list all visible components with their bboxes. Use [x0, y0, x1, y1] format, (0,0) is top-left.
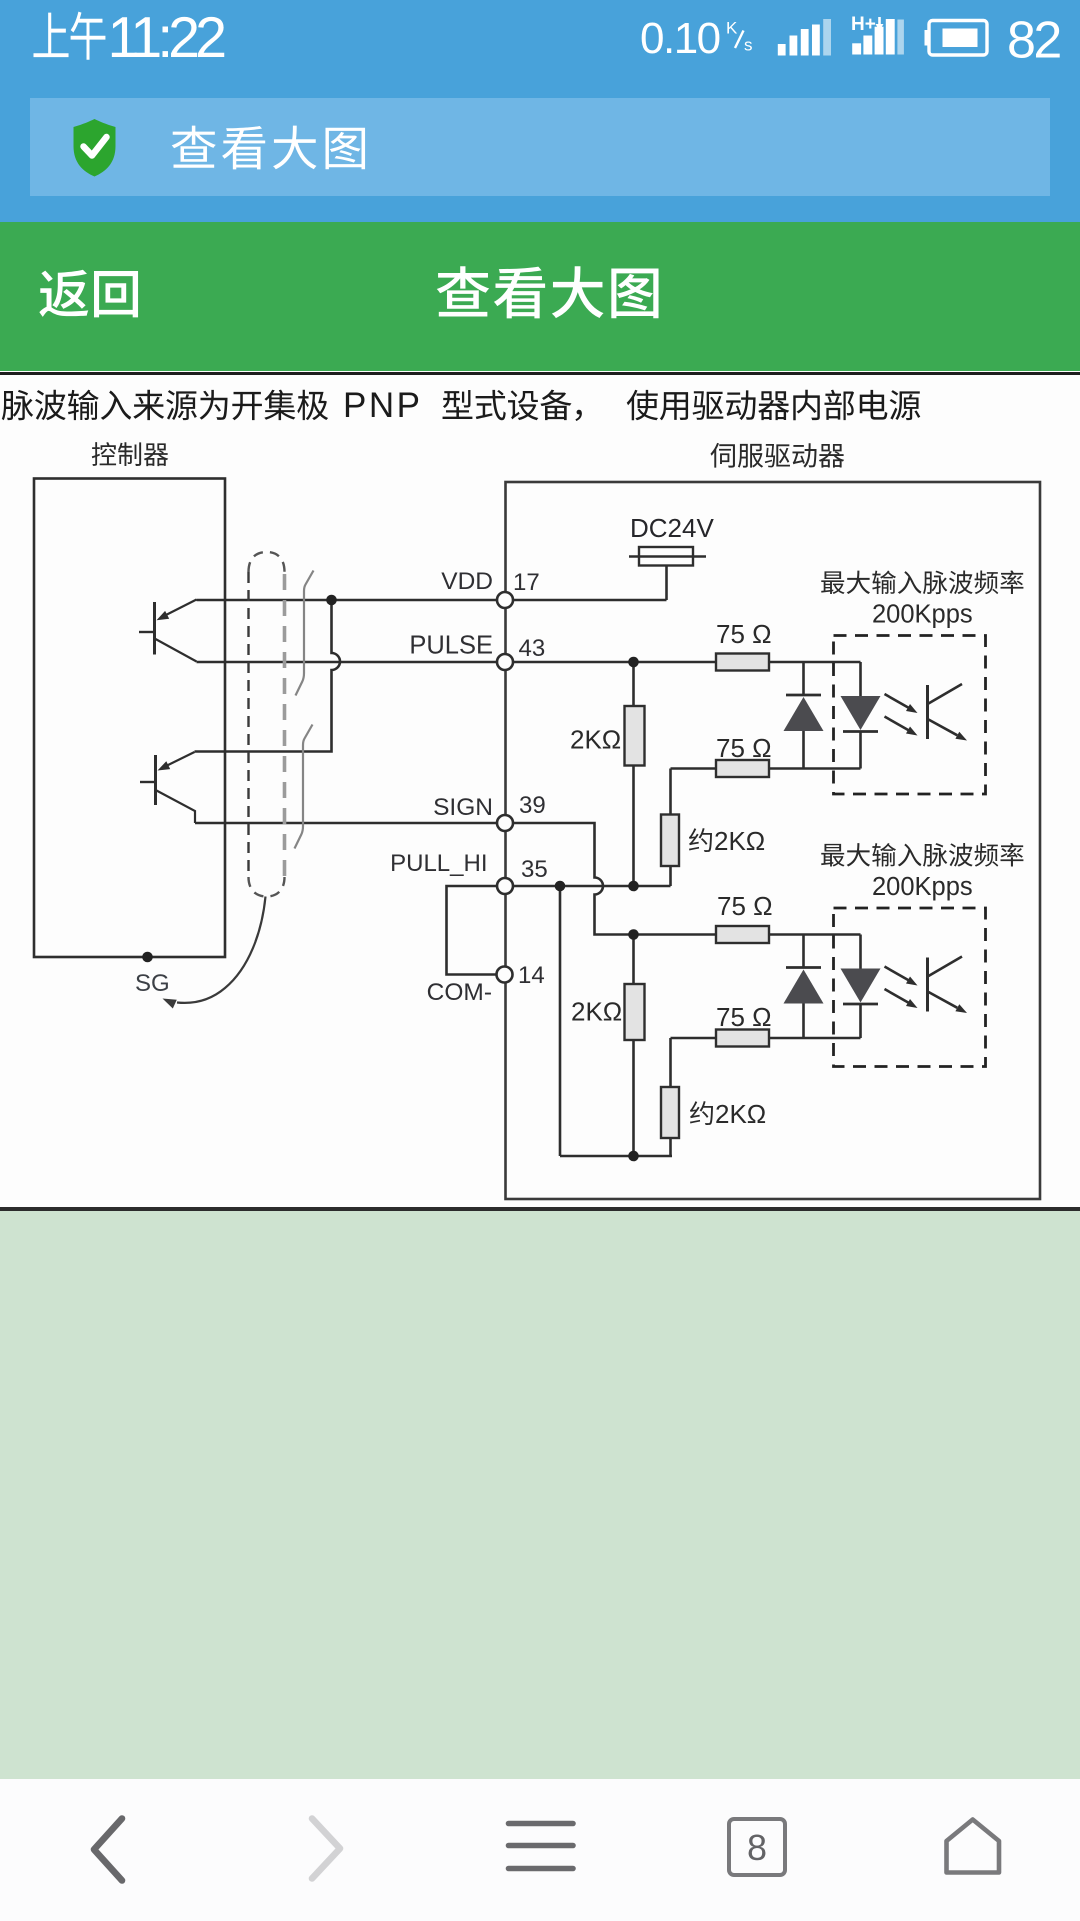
nav menu icon — [509, 1824, 574, 1869]
svg-text:2KΩ: 2KΩ — [571, 997, 622, 1027]
pin 35 PULL_HI — [497, 878, 513, 894]
resistor R6 75ohm (SIGN series upper) — [716, 926, 769, 943]
controller box — [34, 479, 225, 958]
nav back chevron — [94, 1819, 122, 1881]
wire R4 top lead from lower rail — [669, 769, 672, 815]
wire VDD net: pin17 to DC24V and to Q1 emitter — [197, 599, 667, 602]
resistor R5 2Kohm pulldown (lower) — [625, 984, 645, 1040]
svg-text:14: 14 — [518, 962, 545, 989]
shield capsule left dashed line — [247, 572, 249, 877]
svg-text:39: 39 — [519, 792, 546, 819]
label controller box 控制器 — [92, 442, 168, 466]
diode D1 (up, optocoupler U1 input) — [784, 695, 824, 731]
pin 17 VDD — [497, 592, 513, 608]
wire VDD branch down to Q2 collector with hop over PULSE — [195, 600, 341, 752]
nav home icon — [947, 1820, 1000, 1873]
svg-text:82: 82 — [1007, 12, 1060, 70]
svg-text:35: 35 — [521, 856, 548, 883]
wire R3 bottom lead down to PULL_HI net — [632, 766, 635, 887]
pin 39 SIGN — [497, 815, 513, 831]
svg-text:2KΩ: 2KΩ — [570, 725, 621, 755]
label servo driver box 伺服驱动器 — [710, 443, 844, 468]
junction node COM- bottom rail/R5 — [628, 1151, 639, 1162]
junction node PULL_HI/COM rail — [555, 881, 566, 892]
wire 2K pulldown R5 top lead — [632, 935, 635, 985]
svg-text:H+: H+ — [851, 14, 876, 35]
svg-text:PNP: PNP — [343, 386, 422, 425]
notification shield icon — [74, 119, 116, 177]
svg-text:75 Ω: 75 Ω — [716, 1002, 772, 1032]
light arrows U2 — [885, 967, 910, 1004]
shield capsule top arc — [249, 552, 285, 572]
label U2 max input pulse frequency — [821, 843, 1023, 867]
svg-text:PULSE: PULSE — [409, 632, 493, 660]
junction node SIGN lower rail/R5 — [628, 929, 639, 940]
value label R4 约2KΩ — [689, 828, 712, 852]
shield capsule bottom arc — [249, 877, 285, 897]
junction node PULSE/R3 — [628, 657, 639, 668]
nav tabs icon with count 8 — [729, 1819, 785, 1875]
resistor R3 2Kohm pulldown (upper) — [625, 706, 645, 766]
wire LED D3 leads — [802, 935, 805, 1039]
resistor R2 75ohm (PULSE series lower) — [716, 760, 769, 777]
shield drain wire to SG — [163, 897, 266, 1009]
junction node PULL_HI/R3 bottom — [628, 881, 639, 892]
svg-text:17: 17 — [513, 569, 540, 596]
svg-text:75 Ω: 75 Ω — [717, 891, 773, 921]
shield capsule right dashed line — [283, 574, 287, 884]
resistor R7 75ohm (SIGN series lower) — [716, 1030, 769, 1047]
servo driver box — [506, 482, 1041, 1199]
pin 43 PULSE — [497, 654, 513, 670]
status bar battery icon — [929, 21, 987, 56]
optocoupler U2 dashed box — [834, 908, 986, 1067]
wire optocoupler1 lower rail through R2 — [671, 767, 861, 770]
light arrows U1 — [885, 694, 910, 731]
wire COM- bottom rail — [560, 1155, 672, 1158]
transistor Q2 (PNP, lower) — [140, 752, 195, 823]
wire LED D1 leads — [802, 662, 805, 769]
node SG junction dot on controller box — [142, 952, 153, 963]
wire COM- vertical rail — [559, 886, 562, 1156]
wire R8 top lead — [669, 1038, 672, 1087]
power source DC24V symbol — [629, 547, 706, 600]
wire LED D2 leads — [859, 662, 862, 769]
resistor R4 approx-2Kohm (upper) — [661, 815, 679, 867]
value label R8 约2KΩ — [690, 1101, 713, 1125]
pin 14 COM- — [497, 967, 513, 983]
phototransistor U2 output — [928, 957, 968, 1014]
cable crossing mark upper — [296, 571, 314, 696]
wire external loop pin35 to pin14 — [447, 886, 498, 975]
wire R4 bottom lead to PULL_HI net — [669, 866, 672, 886]
nav forward chevron — [312, 1819, 340, 1879]
svg-text:75 Ω: 75 Ω — [716, 619, 772, 649]
svg-text:11:22: 11:22 — [108, 6, 226, 70]
page title line — [2, 386, 921, 425]
diode D2 (down, optocoupler U1 LED) — [841, 696, 881, 732]
svg-text:VDD: VDD — [441, 568, 493, 595]
wire 2K pulldown R3 top lead — [632, 662, 635, 706]
transistor Q1 (PNP, upper) — [139, 600, 197, 662]
resistor R1 75ohm (PULSE series upper) — [716, 654, 769, 671]
wire optocoupler2 lower rail through R7 — [671, 1037, 861, 1040]
svg-text:s: s — [744, 36, 753, 55]
wire R5 bottom lead to COM- rail — [632, 1040, 635, 1156]
svg-text:DC24V: DC24V — [630, 513, 714, 543]
resistor R8 approx-2Kohm (lower) — [661, 1087, 679, 1138]
phototransistor U1 output — [928, 684, 968, 741]
wire PULL_HI: pin35 to R4 bottom — [505, 885, 671, 888]
svg-text:75 Ω: 75 Ω — [716, 733, 772, 763]
svg-text:2KΩ: 2KΩ — [714, 826, 765, 856]
svg-text:2KΩ: 2KΩ — [715, 1099, 766, 1129]
svg-text:COM-: COM- — [427, 979, 492, 1006]
wire PULSE net: Q1 collector to pin43 to optocoupler 1 — [197, 661, 861, 664]
svg-text:200Kpps: 200Kpps — [872, 601, 973, 629]
svg-text:43: 43 — [519, 635, 546, 662]
status bar signal bars 2 — [852, 43, 861, 54]
label U1 max input pulse frequency — [821, 570, 1023, 594]
svg-text:8: 8 — [747, 1827, 767, 1868]
svg-text:SIGN: SIGN — [433, 794, 493, 821]
wire SIGN net: Q2 emitter to pin39 then down with hop to lower network — [195, 823, 861, 935]
svg-text:K: K — [726, 19, 738, 38]
status bar clock — [33, 12, 105, 60]
optocoupler U1 dashed box — [834, 636, 986, 795]
wire R8 bottom lead to COM- rail — [669, 1138, 672, 1156]
wire LED D4 leads — [859, 935, 862, 1039]
svg-text:PULL_HI: PULL_HI — [390, 850, 487, 877]
header bar texts — [39, 270, 138, 318]
cable crossing mark lower — [295, 725, 313, 849]
svg-text:0.10: 0.10 — [640, 14, 720, 63]
status bar signal bars 1 — [778, 44, 786, 56]
junction node on VDD wire — [326, 595, 337, 606]
svg-text:SG: SG — [135, 970, 170, 997]
svg-text:200Kpps: 200Kpps — [872, 873, 973, 901]
notification title 查看大图 — [172, 126, 365, 170]
diode D4 (down, optocoupler U2 LED) — [841, 969, 881, 1005]
diode D3 (up, optocoupler U2 input) — [784, 968, 824, 1004]
